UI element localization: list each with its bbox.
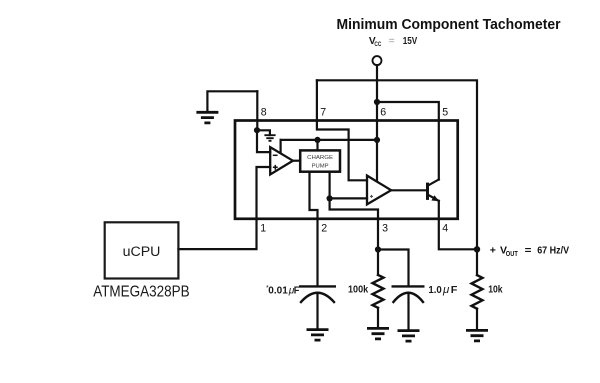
- svg-text:ATMEGA328PB: ATMEGA328PB: [93, 284, 190, 301]
- svg-text:100k: 100k: [348, 285, 368, 296]
- svg-text:10k: 10k: [488, 285, 503, 296]
- svg-text:67 Hz/V: 67 Hz/V: [537, 245, 569, 257]
- svg-text:0.01: 0.01: [268, 286, 288, 297]
- svg-text:+: +: [490, 244, 496, 256]
- svg-text:1: 1: [260, 223, 266, 235]
- svg-text:μ: μ: [442, 284, 450, 296]
- svg-text:4: 4: [442, 223, 448, 235]
- svg-text:F: F: [294, 286, 300, 297]
- svg-text:=: =: [525, 244, 532, 256]
- svg-text:2: 2: [321, 223, 327, 235]
- svg-text:6: 6: [380, 107, 386, 119]
- svg-text:3: 3: [382, 223, 388, 235]
- svg-text:PUMP: PUMP: [312, 164, 329, 170]
- svg-text:5: 5: [442, 107, 448, 119]
- svg-text:OUT: OUT: [506, 251, 519, 258]
- svg-text:=: =: [389, 36, 395, 47]
- svg-text:1.0: 1.0: [428, 285, 442, 296]
- svg-text:F: F: [451, 285, 458, 296]
- svg-text:CHARGE: CHARGE: [307, 155, 333, 161]
- svg-text:Minimum Component Tachometer: Minimum Component Tachometer: [337, 17, 561, 33]
- svg-text:15V: 15V: [403, 36, 418, 47]
- svg-text:7: 7: [320, 107, 326, 119]
- svg-text:CC: CC: [374, 41, 381, 48]
- svg-text:uCPU: uCPU: [123, 244, 161, 260]
- svg-text:8: 8: [261, 107, 267, 119]
